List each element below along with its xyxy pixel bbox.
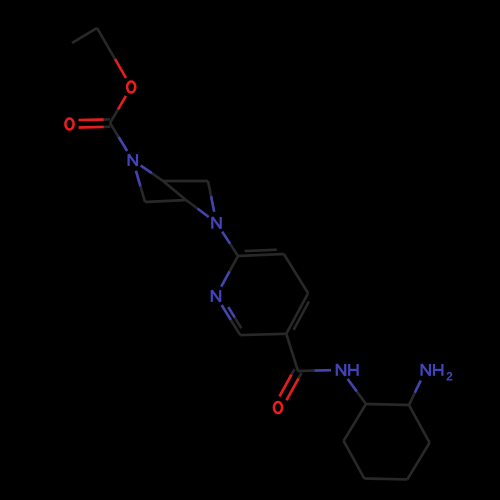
svg-text:2: 2 [446,369,453,383]
